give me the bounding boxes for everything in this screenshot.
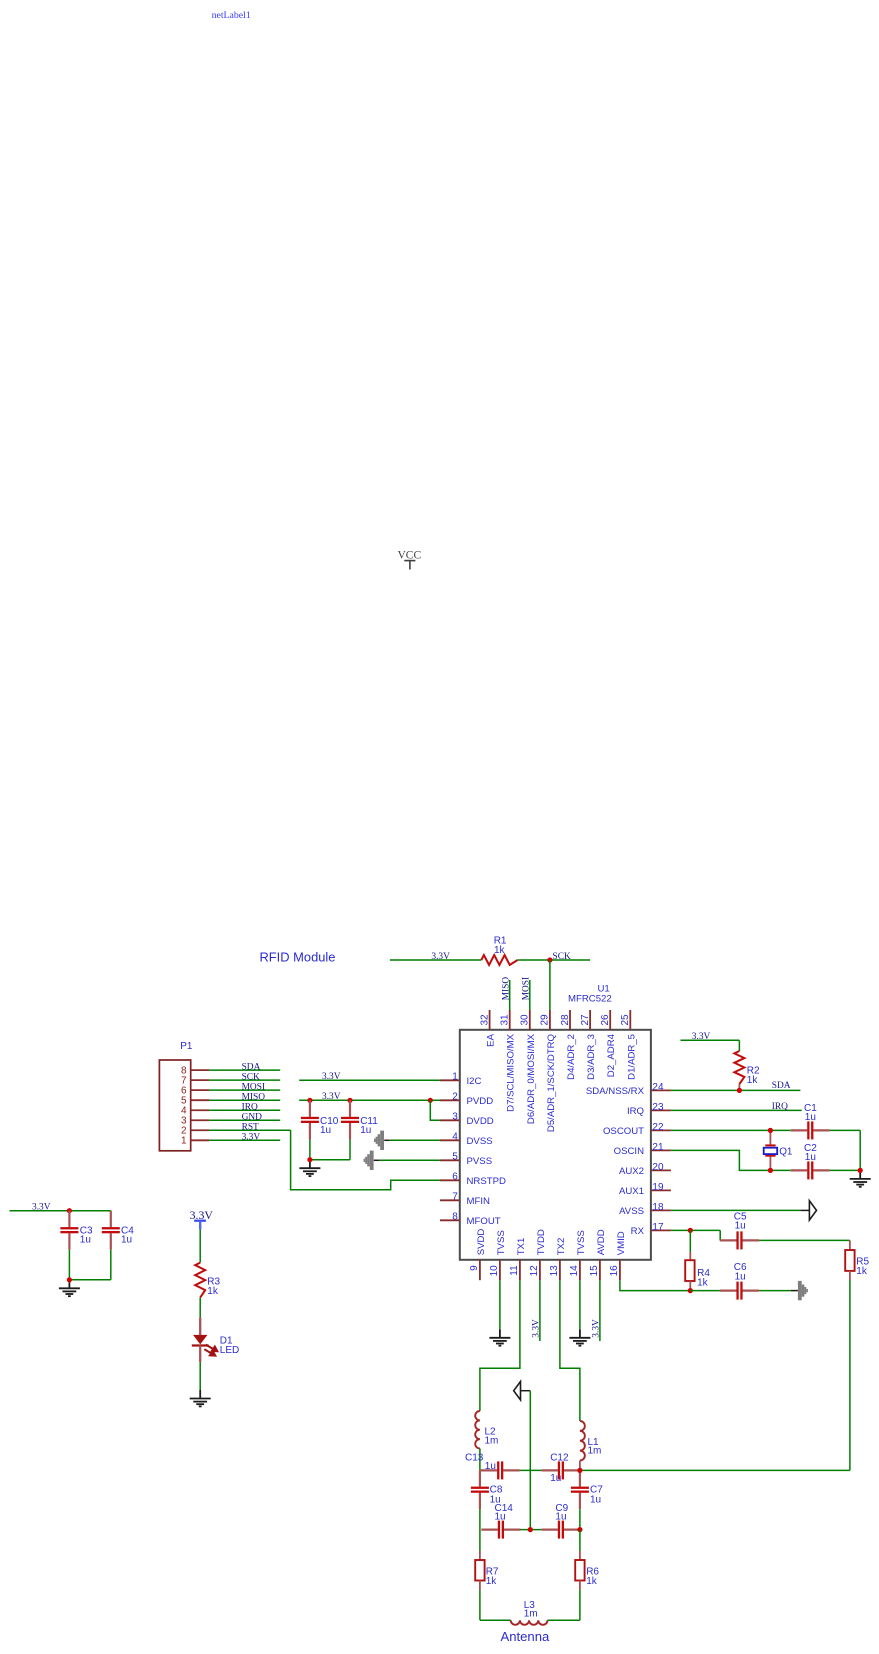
svg-text:24: 24 bbox=[652, 1082, 664, 1093]
ground bbox=[190, 1390, 211, 1406]
svg-text:7: 7 bbox=[452, 1192, 458, 1203]
svg-text:31: 31 bbox=[500, 1014, 511, 1026]
svg-text:SDA: SDA bbox=[772, 1081, 791, 1091]
wire pin 24 SDA bbox=[671, 1089, 801, 1091]
capacitor C11 bbox=[341, 1100, 359, 1139]
wire RST from P1 to NRSTPD bbox=[209, 1129, 290, 1131]
svg-text:SCK: SCK bbox=[553, 952, 571, 962]
resistor R7 bbox=[475, 1560, 484, 1581]
svg-text:3.3V: 3.3V bbox=[242, 1133, 261, 1143]
svg-text:22: 22 bbox=[652, 1122, 664, 1133]
svg-text:14: 14 bbox=[569, 1265, 580, 1277]
capacitor C5 bbox=[720, 1231, 759, 1249]
junction mid bbox=[528, 1527, 533, 1532]
junction crystal top bbox=[768, 1128, 773, 1133]
svg-text:netLabel1: netLabel1 bbox=[212, 10, 251, 21]
svg-text:1k: 1k bbox=[486, 1576, 498, 1587]
pin 5 stub bbox=[440, 1159, 460, 1161]
wire pin 22 OSCOUT bbox=[671, 1129, 791, 1131]
inductor L2 bbox=[475, 1411, 480, 1449]
wire bottom left bbox=[480, 1619, 511, 1621]
pin 7 stub bbox=[440, 1199, 460, 1201]
wire C4 down bbox=[110, 1250, 112, 1280]
junction VMID/R4 bbox=[688, 1288, 693, 1293]
wire bottom right bbox=[548, 1619, 580, 1621]
pin 17 stub bbox=[651, 1229, 671, 1231]
ground bbox=[850, 1170, 871, 1186]
svg-text:TX1: TX1 bbox=[516, 1238, 527, 1256]
svg-text:RX: RX bbox=[631, 1226, 645, 1237]
wire VMID to C6 bbox=[690, 1290, 720, 1292]
svg-text:D6/ADR_0/MOSI/MX: D6/ADR_0/MOSI/MX bbox=[526, 1033, 537, 1124]
wire right side to antenna row bbox=[580, 1469, 850, 1471]
pin 8 stub bbox=[440, 1219, 460, 1221]
P1 pin 8 stub bbox=[191, 1069, 210, 1071]
wire arrow stub bbox=[384, 1139, 390, 1141]
svg-text:10: 10 bbox=[489, 1265, 500, 1277]
svg-text:RST: RST bbox=[242, 1123, 259, 1133]
wire 3.3V to R1 bbox=[390, 959, 481, 961]
svg-text:3.3V: 3.3V bbox=[322, 1092, 341, 1102]
junction crystal bottom bbox=[768, 1168, 773, 1173]
svg-text:1u: 1u bbox=[735, 1221, 746, 1232]
svg-text:AVSS: AVSS bbox=[619, 1206, 644, 1217]
P1 pin 1 stub bbox=[191, 1139, 210, 1141]
svg-text:3.3V: 3.3V bbox=[32, 1202, 51, 1212]
pin 3 stub bbox=[440, 1119, 460, 1121]
capacitor C13 bbox=[481, 1461, 520, 1479]
svg-text:MISO: MISO bbox=[242, 1092, 266, 1102]
pin 18 stub bbox=[651, 1209, 671, 1211]
svg-text:1k: 1k bbox=[856, 1266, 868, 1277]
P1 pin 4 stub bbox=[191, 1109, 210, 1111]
P1 pin 5 stub bbox=[191, 1099, 210, 1101]
svg-text:23: 23 bbox=[652, 1102, 664, 1113]
wire R7 to bottom bbox=[479, 1590, 481, 1620]
wire to pin 4 DVSS bbox=[390, 1139, 440, 1141]
svg-text:IRQ: IRQ bbox=[242, 1103, 258, 1113]
svg-text:1u: 1u bbox=[485, 1461, 496, 1472]
ic body U1 MFRC522 bbox=[460, 1030, 651, 1260]
R5 lead bottom bbox=[849, 1271, 851, 1280]
svg-text:D7/SCL/MISO/MX: D7/SCL/MISO/MX bbox=[506, 1033, 517, 1111]
svg-text:32: 32 bbox=[479, 1014, 490, 1026]
svg-text:EA: EA bbox=[486, 1033, 497, 1046]
svg-text:NRSTPD: NRSTPD bbox=[467, 1176, 507, 1187]
wire C2 right bbox=[830, 1169, 860, 1171]
wire 3.3V to R3 bbox=[199, 1230, 201, 1263]
svg-text:D2_ADR4: D2_ADR4 bbox=[606, 1033, 617, 1077]
capacitor C8 bbox=[471, 1470, 489, 1509]
pin 30 stub bbox=[529, 1010, 531, 1030]
svg-text:30: 30 bbox=[520, 1014, 531, 1026]
svg-text:1u: 1u bbox=[550, 1473, 561, 1484]
wire P1 3.3V bbox=[209, 1139, 280, 1141]
R5 lead top bbox=[849, 1240, 851, 1250]
P1 pin 6 stub bbox=[191, 1089, 210, 1091]
ground bbox=[489, 1329, 510, 1345]
pin 28 stub bbox=[569, 1010, 571, 1030]
svg-text:MFRC522: MFRC522 bbox=[568, 994, 612, 1005]
pin 10 stub bbox=[499, 1260, 501, 1280]
wire pin 11 TX1 to L2 bbox=[480, 1280, 520, 1411]
resistor R3 bbox=[195, 1263, 205, 1298]
wire arrow stub bbox=[521, 1390, 531, 1392]
svg-text:SDA/NSS/RX: SDA/NSS/RX bbox=[586, 1086, 645, 1097]
pin 16 stub bbox=[619, 1260, 621, 1280]
svg-text:3.3V: 3.3V bbox=[591, 1319, 601, 1338]
svg-text:D4/ADR_2: D4/ADR_2 bbox=[566, 1034, 577, 1080]
svg-text:TVDD: TVDD bbox=[536, 1229, 547, 1255]
wire R5 down right side bbox=[849, 1280, 851, 1470]
wire P1 MISO bbox=[209, 1099, 280, 1101]
svg-text:1: 1 bbox=[452, 1072, 458, 1083]
svg-text:1m: 1m bbox=[485, 1436, 499, 1447]
svg-text:11: 11 bbox=[509, 1265, 520, 1276]
junction DVDD branch bbox=[428, 1098, 433, 1103]
svg-text:1u: 1u bbox=[805, 1112, 816, 1123]
svg-text:1m: 1m bbox=[588, 1446, 602, 1457]
R2 lead bbox=[738, 1084, 740, 1090]
svg-text:1: 1 bbox=[181, 1136, 187, 1147]
svg-text:IRQ: IRQ bbox=[772, 1102, 788, 1112]
ground bbox=[59, 1280, 80, 1296]
svg-text:1u: 1u bbox=[495, 1512, 506, 1523]
wire mid vertical to C14 row bbox=[529, 1391, 531, 1530]
wire right down bbox=[859, 1130, 861, 1170]
wire P1 IRQ bbox=[209, 1109, 280, 1111]
wire down to R2 bbox=[738, 1040, 740, 1051]
svg-text:VCC: VCC bbox=[398, 550, 422, 562]
connector P1 body bbox=[159, 1060, 190, 1151]
L1 lead to junction bbox=[579, 1461, 581, 1471]
wire to port arrow bbox=[800, 1209, 809, 1211]
svg-text:D3/ADR_3: D3/ADR_3 bbox=[586, 1034, 597, 1080]
wire pin 18 AVSS bbox=[671, 1209, 801, 1211]
wire SCK down to pin 29 bbox=[549, 960, 551, 1010]
svg-text:D5/ADR_1/SCK/DTRQ: D5/ADR_1/SCK/DTRQ bbox=[546, 1034, 557, 1132]
D1 lead top bbox=[199, 1317, 201, 1335]
resistor R2 bbox=[734, 1051, 744, 1084]
pin 14 stub bbox=[579, 1260, 581, 1280]
svg-text:16: 16 bbox=[609, 1265, 620, 1277]
R6 lead bottom bbox=[579, 1581, 581, 1591]
pin 25 stub bbox=[629, 1010, 631, 1030]
wire C7 to C9 row bbox=[579, 1509, 581, 1529]
wire 3.3V C3 C4 bbox=[10, 1210, 111, 1212]
pin 21 stub bbox=[651, 1149, 671, 1151]
inductor L3 bbox=[511, 1620, 548, 1625]
ground arrow VMID bbox=[798, 1281, 808, 1300]
wire C10 to ground bbox=[309, 1140, 311, 1160]
pin 12 stub bbox=[539, 1260, 541, 1280]
resistor R5 bbox=[845, 1250, 854, 1271]
wire C8 to C14 row bbox=[479, 1509, 481, 1529]
svg-text:9: 9 bbox=[469, 1265, 480, 1271]
wire C13 to C12 bbox=[520, 1469, 542, 1471]
R4 lead bottom bbox=[689, 1281, 691, 1291]
pin 23 stub bbox=[651, 1109, 671, 1111]
svg-text:1u: 1u bbox=[121, 1235, 132, 1246]
svg-text:VMID: VMID bbox=[616, 1231, 627, 1255]
wire P1 SCK bbox=[209, 1079, 280, 1081]
D1 lead bottom bbox=[199, 1346, 201, 1363]
pin 32 stub bbox=[489, 1010, 491, 1030]
capacitor C1 bbox=[791, 1121, 830, 1139]
svg-text:2: 2 bbox=[452, 1092, 458, 1103]
capacitor C12 bbox=[541, 1461, 580, 1479]
svg-text:SVDD: SVDD bbox=[476, 1229, 487, 1256]
wire P1 GND bbox=[209, 1119, 280, 1121]
wire to pin 5 PVSS bbox=[379, 1159, 440, 1161]
svg-text:C13: C13 bbox=[465, 1453, 484, 1464]
wire C3 to ground bbox=[68, 1250, 70, 1280]
svg-text:RFID Module: RFID Module bbox=[260, 950, 336, 965]
junction R4 top bbox=[688, 1228, 693, 1233]
svg-text:1k: 1k bbox=[697, 1278, 709, 1289]
junction R2/SDA bbox=[737, 1088, 742, 1093]
svg-text:AUX2: AUX2 bbox=[619, 1166, 644, 1177]
wire pin 23 IRQ bbox=[671, 1109, 802, 1111]
svg-text:3: 3 bbox=[452, 1112, 458, 1123]
svg-text:1u: 1u bbox=[555, 1512, 566, 1523]
port arrow AVSS bbox=[809, 1201, 816, 1220]
svg-text:IRQ: IRQ bbox=[627, 1106, 644, 1117]
inductor L1 bbox=[580, 1421, 585, 1461]
pin 13 stub bbox=[559, 1260, 561, 1280]
LED D1 bbox=[192, 1335, 218, 1356]
svg-text:MOSI: MOSI bbox=[242, 1082, 265, 1092]
pin 9 stub bbox=[479, 1260, 481, 1280]
power symbol 3.3V bbox=[190, 1208, 214, 1230]
wire pin 12 TVDD bbox=[539, 1280, 541, 1341]
svg-text:3.3V: 3.3V bbox=[692, 1032, 711, 1042]
svg-text:PVDD: PVDD bbox=[467, 1096, 494, 1107]
P1 pin 2 stub bbox=[191, 1129, 210, 1131]
wire arrow stub bbox=[374, 1159, 380, 1161]
pin 29 stub bbox=[549, 1010, 551, 1030]
wire C11 down bbox=[349, 1140, 351, 1160]
svg-text:AUX1: AUX1 bbox=[619, 1186, 644, 1197]
svg-text:1u: 1u bbox=[80, 1235, 91, 1246]
svg-text:GND: GND bbox=[242, 1113, 263, 1123]
wire D1 to ground bbox=[199, 1362, 201, 1390]
svg-text:C12: C12 bbox=[550, 1453, 569, 1464]
svg-text:4: 4 bbox=[452, 1132, 458, 1143]
wire corner to C5 bbox=[719, 1230, 721, 1240]
junction antenna right bbox=[577, 1468, 582, 1473]
svg-text:P1: P1 bbox=[180, 1041, 193, 1052]
R7 lead top bbox=[479, 1551, 481, 1560]
svg-text:MFIN: MFIN bbox=[467, 1196, 491, 1207]
svg-text:MOSI: MOSI bbox=[521, 977, 531, 1000]
pin 6 stub bbox=[440, 1179, 460, 1181]
svg-text:19: 19 bbox=[652, 1182, 664, 1193]
wire pin 13 TX2 to L1 bbox=[560, 1280, 580, 1421]
wire L2 to C13 row bbox=[479, 1449, 481, 1471]
pin 4 stub bbox=[440, 1139, 460, 1141]
pin 22 stub bbox=[651, 1129, 671, 1131]
pin 26 stub bbox=[609, 1010, 611, 1030]
wire R6 to bottom bbox=[579, 1590, 581, 1620]
wire crystal bottom row bbox=[770, 1169, 790, 1171]
pin 11 stub bbox=[519, 1260, 521, 1280]
svg-text:29: 29 bbox=[540, 1014, 551, 1026]
capacitor C4 bbox=[102, 1211, 120, 1250]
svg-text:3.3V: 3.3V bbox=[431, 952, 450, 962]
svg-text:5: 5 bbox=[452, 1152, 458, 1163]
svg-text:20: 20 bbox=[652, 1162, 664, 1173]
wire C4 to junction bbox=[69, 1279, 110, 1281]
power symbol VCC bbox=[398, 550, 422, 570]
svg-text:1u: 1u bbox=[735, 1272, 746, 1283]
svg-text:D1/ADR_5: D1/ADR_5 bbox=[626, 1034, 637, 1080]
wire P1 MOSI bbox=[209, 1089, 280, 1091]
pin 31 stub bbox=[509, 1010, 511, 1030]
svg-text:18: 18 bbox=[652, 1202, 664, 1213]
capacitor C9 bbox=[541, 1521, 580, 1539]
svg-text:SCK: SCK bbox=[242, 1072, 260, 1082]
svg-text:1k: 1k bbox=[747, 1075, 759, 1086]
svg-text:1k: 1k bbox=[586, 1576, 598, 1587]
capacitor C10 bbox=[301, 1100, 319, 1139]
junction ground right bbox=[858, 1168, 863, 1173]
pin 1 stub bbox=[440, 1079, 460, 1081]
svg-text:1k: 1k bbox=[494, 945, 506, 956]
port arrow TX mid bbox=[514, 1382, 521, 1400]
wire C1 right bbox=[830, 1129, 860, 1131]
pin 2 stub bbox=[440, 1099, 460, 1101]
wire MISO to pin 31 bbox=[509, 980, 511, 1010]
wire pin 15 AVDD bbox=[599, 1280, 601, 1341]
wire corner C4 bbox=[110, 1210, 112, 1212]
capacitor C3 bbox=[60, 1211, 78, 1250]
svg-text:DVDD: DVDD bbox=[467, 1116, 494, 1127]
wire 3.3V to pin 1 I2C bbox=[299, 1079, 440, 1081]
wire pin 21 OSCIN bbox=[671, 1150, 771, 1170]
svg-text:OSCOUT: OSCOUT bbox=[603, 1126, 644, 1137]
wire pin 16 VMID bbox=[620, 1280, 690, 1290]
svg-text:12: 12 bbox=[529, 1265, 540, 1277]
svg-text:Antenna: Antenna bbox=[501, 1629, 550, 1644]
wire R4 top bbox=[689, 1230, 691, 1252]
wire MOSI to pin 30 bbox=[529, 980, 531, 1010]
pin 24 stub bbox=[651, 1089, 671, 1091]
R7 lead bottom bbox=[479, 1581, 481, 1591]
capacitor C7 bbox=[571, 1470, 589, 1509]
junction ground bbox=[307, 1157, 312, 1162]
svg-text:TVSS: TVSS bbox=[576, 1230, 587, 1255]
wire P1 SDA bbox=[209, 1069, 280, 1071]
wire C11 to junction bbox=[310, 1159, 350, 1161]
svg-text:1u: 1u bbox=[805, 1152, 816, 1163]
svg-text:MISO: MISO bbox=[501, 977, 511, 1001]
crystal Q1 bbox=[764, 1130, 778, 1170]
svg-text:1k: 1k bbox=[207, 1286, 219, 1297]
svg-text:28: 28 bbox=[560, 1014, 571, 1026]
wire branch to pin 3 DVDD bbox=[430, 1100, 440, 1120]
capacitor C14 bbox=[481, 1521, 520, 1539]
pin 15 stub bbox=[599, 1260, 601, 1280]
svg-text:3.3V: 3.3V bbox=[322, 1072, 341, 1082]
resistor R1 bbox=[481, 955, 517, 965]
ground arrow PVSS bbox=[364, 1151, 374, 1170]
svg-text:TVSS: TVSS bbox=[496, 1230, 507, 1255]
junction right C9 bbox=[577, 1527, 582, 1532]
svg-text:1m: 1m bbox=[524, 1609, 538, 1620]
svg-text:SDA: SDA bbox=[242, 1062, 261, 1072]
capacitor C2 bbox=[791, 1161, 830, 1179]
junction C10 top bbox=[307, 1098, 312, 1103]
svg-text:21: 21 bbox=[652, 1142, 664, 1153]
svg-text:Q1: Q1 bbox=[779, 1146, 793, 1157]
pin 20 stub bbox=[651, 1169, 671, 1171]
wire R3 to D1 bbox=[199, 1298, 201, 1318]
wire to R7 bbox=[479, 1530, 481, 1551]
capacitor C6 bbox=[720, 1282, 759, 1300]
ground bbox=[569, 1329, 590, 1345]
svg-text:25: 25 bbox=[620, 1014, 631, 1026]
svg-text:27: 27 bbox=[580, 1014, 591, 1026]
svg-text:AVDD: AVDD bbox=[596, 1229, 607, 1255]
resistor R4 bbox=[685, 1260, 694, 1281]
junction C11 top bbox=[347, 1098, 352, 1103]
wire C6 right bbox=[759, 1290, 791, 1292]
resistor R6 bbox=[575, 1560, 584, 1581]
svg-text:1u: 1u bbox=[590, 1495, 601, 1506]
svg-text:8: 8 bbox=[452, 1212, 458, 1223]
pin 19 stub bbox=[651, 1189, 671, 1191]
svg-text:DVSS: DVSS bbox=[467, 1136, 493, 1147]
svg-text:17: 17 bbox=[652, 1222, 664, 1233]
svg-text:1u: 1u bbox=[360, 1125, 371, 1136]
junction C3 top bbox=[67, 1208, 72, 1213]
wire to R6 bbox=[579, 1530, 581, 1551]
svg-text:3.3V: 3.3V bbox=[531, 1319, 541, 1338]
P1 pin 3 stub bbox=[191, 1119, 210, 1121]
pin 27 stub bbox=[589, 1010, 591, 1030]
svg-text:6: 6 bbox=[452, 1172, 458, 1183]
svg-text:OSCIN: OSCIN bbox=[614, 1146, 644, 1157]
R4 lead top bbox=[689, 1252, 691, 1260]
wire pin 10 TVSS to ground bbox=[499, 1280, 501, 1329]
wire C5 to R5 bbox=[759, 1239, 850, 1241]
R6 lead top bbox=[579, 1551, 581, 1560]
wire pin 17 RX bbox=[671, 1229, 720, 1231]
wire 3.3V to R2 bbox=[681, 1039, 740, 1041]
wire arrow stub bbox=[791, 1290, 798, 1292]
ground bbox=[299, 1160, 320, 1176]
svg-text:13: 13 bbox=[549, 1265, 560, 1277]
svg-text:PVSS: PVSS bbox=[467, 1156, 493, 1167]
svg-text:15: 15 bbox=[589, 1265, 600, 1277]
wire C14 to C9 bbox=[521, 1529, 542, 1531]
wire 3.3V to pin 2 PVDD bbox=[299, 1099, 440, 1101]
svg-text:26: 26 bbox=[600, 1014, 611, 1026]
svg-text:TX2: TX2 bbox=[556, 1238, 567, 1256]
P1 pin 7 stub bbox=[191, 1079, 210, 1081]
ground arrow DVSS bbox=[374, 1131, 384, 1150]
junction SCK bbox=[547, 957, 552, 962]
svg-text:1u: 1u bbox=[320, 1125, 331, 1136]
wire pin 14 TVSS to ground bbox=[579, 1280, 581, 1329]
junction ground bbox=[67, 1277, 72, 1282]
wire RST route to pin 6 bbox=[291, 1130, 440, 1190]
svg-text:MFOUT: MFOUT bbox=[467, 1216, 501, 1227]
svg-text:I2C: I2C bbox=[467, 1076, 482, 1087]
svg-text:LED: LED bbox=[220, 1345, 239, 1356]
wire R1 to SCK bbox=[518, 959, 591, 961]
